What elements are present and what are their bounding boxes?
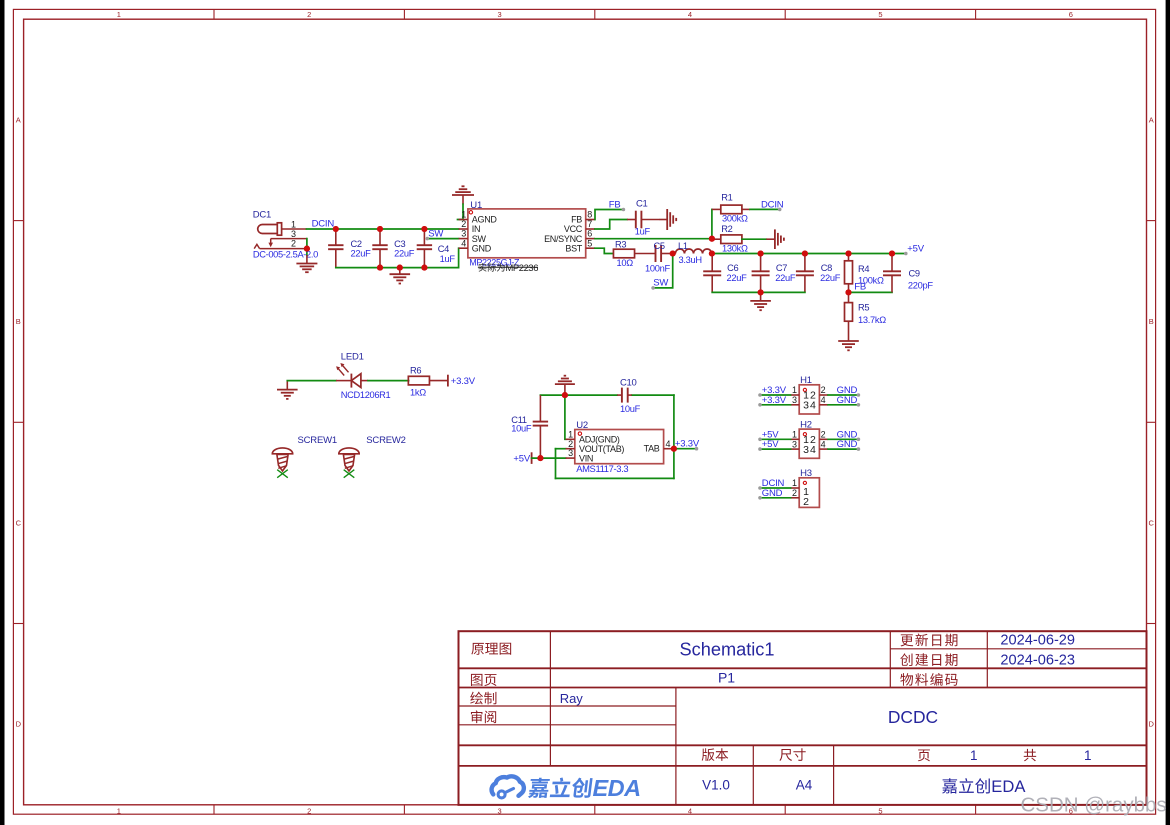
- svg-text:GND: GND: [837, 395, 858, 406]
- connector DC1 barrel jack: [254, 223, 307, 249]
- svg-text:6: 6: [1069, 10, 1073, 19]
- wire R1 to DCIN flag: [712, 208, 721, 210]
- svg-text:220pF: 220pF: [908, 280, 933, 290]
- svg-text:2024-06-29: 2024-06-29: [1000, 633, 1075, 649]
- svg-text:R1: R1: [721, 193, 732, 203]
- svg-text:EDA: EDA: [593, 775, 641, 801]
- svg-text:5: 5: [878, 10, 882, 19]
- svg-text:22uF: 22uF: [775, 273, 796, 283]
- svg-text:SW: SW: [472, 234, 487, 244]
- ground right of R2: [766, 238, 775, 240]
- svg-text:SW: SW: [428, 228, 443, 239]
- screw SCREW2: [339, 448, 359, 454]
- svg-text:A: A: [16, 116, 21, 125]
- H1 net labels: [762, 385, 858, 406]
- svg-text:TAB: TAB: [644, 444, 660, 454]
- svg-text:4: 4: [461, 238, 466, 248]
- resistor R5: [848, 292, 850, 302]
- capacitor C9: [891, 254, 893, 272]
- ground below R5: [848, 340, 850, 341]
- svg-text:4: 4: [810, 400, 816, 412]
- title label 共: [1024, 749, 1036, 761]
- title label 图页: [471, 674, 497, 686]
- junction gnd rail C4: [421, 265, 427, 271]
- ground at DC1: [306, 255, 308, 264]
- svg-text:10Ω: 10Ω: [617, 258, 634, 268]
- power flag +5V at U2: [531, 452, 533, 464]
- wire ground to LED1: [287, 380, 336, 382]
- wire DC1 pin3 to ground: [306, 239, 308, 255]
- junction C4 top: [421, 226, 427, 232]
- wire +5V rail: [712, 253, 906, 255]
- ground above U1 pin1: [462, 185, 465, 187]
- wire EN/SYNC to R1/R2 node: [595, 238, 712, 240]
- svg-text:Schematic1: Schematic1: [679, 640, 774, 660]
- svg-text:D: D: [1148, 720, 1154, 729]
- svg-text:H1: H1: [800, 375, 812, 386]
- svg-text:A: A: [1149, 116, 1154, 125]
- wire U1 pin1 to ground: [458, 204, 464, 219]
- svg-text:V1.0: V1.0: [702, 777, 730, 792]
- svg-text:Ray: Ray: [560, 691, 584, 706]
- svg-text:C4: C4: [438, 244, 449, 254]
- svg-text:5: 5: [878, 806, 882, 815]
- svg-text:C: C: [16, 519, 22, 528]
- svg-text:7: 7: [587, 219, 592, 229]
- JLCEDA logo text 嘉立创EDA: [528, 777, 593, 797]
- svg-text:2: 2: [461, 219, 466, 229]
- net flag +5V: [904, 252, 908, 256]
- svg-text:2: 2: [291, 238, 296, 248]
- H3 wires: [758, 486, 799, 499]
- header H1: [799, 385, 819, 414]
- ground at output caps: [760, 292, 762, 301]
- U2 pin stubs: [566, 439, 673, 458]
- svg-text:1uF: 1uF: [635, 226, 651, 236]
- net flag FB at U1 pin8: [595, 210, 623, 220]
- svg-text:22uF: 22uF: [820, 273, 841, 283]
- note 实际为MP2236: [479, 263, 505, 272]
- svg-text:FB: FB: [854, 281, 866, 292]
- capacitor C2: [335, 229, 337, 245]
- wire R6 to +3.3V: [429, 380, 448, 382]
- svg-text:2: 2: [792, 488, 797, 498]
- capacitor C3: [379, 229, 381, 245]
- junction dots overlay: [304, 226, 895, 461]
- svg-text:EN/SYNC: EN/SYNC: [544, 234, 583, 244]
- wire input gnd rail: [336, 248, 459, 267]
- capacitor C4: [423, 229, 425, 245]
- wire LED1 to R6: [368, 380, 409, 382]
- svg-text:C: C: [1148, 519, 1154, 528]
- capacitor C7: [760, 254, 762, 272]
- svg-text:C5: C5: [654, 241, 665, 251]
- svg-text:C10: C10: [620, 377, 637, 388]
- svg-text:GND: GND: [762, 488, 783, 499]
- svg-text:H2: H2: [800, 420, 812, 431]
- U2 pin names: [579, 435, 660, 464]
- svg-text:3: 3: [792, 439, 797, 449]
- H3 outside pin numbers: [792, 478, 797, 498]
- svg-text:4: 4: [821, 439, 826, 449]
- svg-text:2: 2: [821, 385, 826, 395]
- svg-text:300kΩ: 300kΩ: [722, 214, 748, 224]
- svg-text:3: 3: [792, 395, 797, 405]
- capacitor C8: [804, 254, 806, 272]
- svg-text:+3.3V: +3.3V: [451, 376, 476, 387]
- svg-text:130kΩ: 130kΩ: [722, 243, 748, 253]
- svg-text:VIN: VIN: [579, 453, 593, 463]
- IC U2 body: [575, 430, 664, 464]
- wire DCIN from DC1 to U1 pin2: [307, 228, 459, 230]
- junction R2 node: [709, 236, 715, 242]
- junction gnd rail C3: [377, 265, 383, 271]
- svg-text:3: 3: [803, 400, 809, 412]
- svg-text:1: 1: [792, 430, 797, 440]
- svg-text:C6: C6: [727, 263, 738, 273]
- IC U1 body: [468, 209, 586, 258]
- resistor R4: [848, 254, 850, 261]
- svg-text:10uF: 10uF: [511, 424, 532, 434]
- junction DC1 pin2/3: [304, 246, 310, 252]
- wire FB node to C9: [849, 291, 893, 293]
- junction TAB +3.3V: [671, 446, 677, 452]
- ground right of C1: [659, 219, 667, 221]
- junction rail C7: [758, 250, 764, 256]
- header H3: [799, 478, 819, 508]
- title label 更新日期: [901, 634, 958, 647]
- svg-text:3: 3: [803, 444, 809, 456]
- junction rail R4: [845, 250, 851, 256]
- svg-text:22uF: 22uF: [351, 249, 372, 259]
- svg-text:L1: L1: [678, 241, 688, 251]
- svg-text:2024-06-23: 2024-06-23: [1000, 652, 1075, 668]
- svg-text:1: 1: [1084, 748, 1092, 763]
- title label 尺寸: [779, 748, 805, 761]
- U1 pin stubs right: [586, 220, 595, 249]
- junction U2 gnd node: [562, 392, 568, 398]
- junction rail C8: [802, 250, 808, 256]
- H1 outside pin numbers: [792, 385, 826, 405]
- svg-text:U1: U1: [470, 200, 482, 211]
- svg-text:+5V: +5V: [907, 244, 924, 255]
- svg-text:+3.3V: +3.3V: [762, 395, 787, 406]
- junction rail L1: [709, 250, 715, 256]
- title label 物料编码: [900, 673, 957, 686]
- capacitor C5: [635, 253, 656, 255]
- U1 pin stubs left: [459, 220, 468, 249]
- svg-text:1: 1: [461, 210, 466, 220]
- svg-text:NCD1206R1: NCD1206R1: [341, 390, 391, 400]
- window edge left: [0, 0, 5, 825]
- wire +3.3V right vertical: [673, 395, 675, 478]
- capacitor C1: [627, 219, 636, 221]
- svg-text:LED1: LED1: [341, 352, 364, 363]
- svg-text:R2: R2: [721, 224, 732, 234]
- svg-text:1: 1: [291, 219, 296, 229]
- svg-text:4: 4: [688, 806, 692, 815]
- junction FB node: [845, 289, 851, 295]
- svg-text:AMS1117-3.3: AMS1117-3.3: [576, 463, 628, 474]
- svg-text:6: 6: [587, 229, 592, 239]
- svg-text:SCREW2: SCREW2: [366, 435, 405, 446]
- ground above U2: [564, 375, 567, 377]
- svg-text:1: 1: [792, 385, 797, 395]
- junction gnd rail ground tap: [397, 265, 403, 271]
- svg-text:1: 1: [117, 806, 121, 815]
- svg-text:CSDN @raybbs: CSDN @raybbs: [1021, 793, 1167, 816]
- resistor R6: [408, 376, 429, 385]
- title label 审阅: [471, 710, 496, 723]
- svg-text:DCDC: DCDC: [888, 707, 938, 727]
- DC1 pin numbers: [291, 219, 296, 248]
- svg-text:DC1: DC1: [253, 210, 271, 221]
- svg-text:FB: FB: [571, 215, 582, 225]
- ground left of LED1: [286, 381, 288, 390]
- capacitor C10: [617, 394, 622, 396]
- svg-text:4: 4: [821, 395, 826, 405]
- svg-text:1: 1: [970, 748, 978, 763]
- svg-text:+5V: +5V: [762, 439, 779, 450]
- svg-text:P1: P1: [718, 670, 735, 686]
- H2 wires: [758, 438, 860, 451]
- H3 net labels: [762, 478, 785, 499]
- wire R1 node vertical: [711, 209, 713, 238]
- svg-text:22uF: 22uF: [727, 273, 748, 283]
- wire U2 top gnd rail: [540, 394, 617, 396]
- svg-text:+5V: +5V: [513, 453, 530, 464]
- title label 绘制: [470, 692, 496, 705]
- resistor R1: [721, 205, 742, 214]
- header H2: [799, 429, 819, 458]
- svg-text:1kΩ: 1kΩ: [410, 387, 426, 397]
- svg-text:FB: FB: [609, 199, 621, 210]
- U1 pin numbers: [461, 210, 592, 249]
- svg-text:3: 3: [498, 10, 502, 19]
- inductor L1: [675, 249, 684, 254]
- title label 页: [918, 749, 930, 761]
- svg-text:+3.3V: +3.3V: [675, 439, 700, 450]
- junction C2 top: [333, 226, 339, 232]
- svg-text:1uF: 1uF: [440, 254, 456, 264]
- LED LED1: [336, 363, 368, 388]
- svg-text:10uF: 10uF: [620, 404, 641, 414]
- wire ADJ to gnd node: [564, 395, 567, 439]
- svg-text:5: 5: [587, 238, 592, 248]
- svg-text:2: 2: [821, 430, 826, 440]
- U2 pin numbers: [568, 429, 670, 458]
- H2 inside pin numbers: [803, 434, 816, 456]
- title label 原理图: [471, 643, 511, 655]
- H1 inside pin numbers: [803, 390, 816, 412]
- svg-text:R6: R6: [410, 365, 421, 375]
- net flag +3.3V at U2: [674, 448, 697, 450]
- svg-text:SW: SW: [653, 278, 668, 289]
- svg-text:13.7kΩ: 13.7kΩ: [858, 315, 886, 325]
- wire U1 pin7 to C1: [595, 220, 627, 230]
- junction C3 top: [377, 226, 383, 232]
- wire U1 pin5 BST to R3: [595, 248, 613, 253]
- svg-text:BST: BST: [565, 243, 582, 253]
- wire +5V to VIN: [532, 457, 566, 459]
- title label 创建日期: [900, 653, 957, 666]
- svg-text:R3: R3: [615, 239, 626, 249]
- title value 嘉立创EDA: [942, 778, 990, 793]
- svg-text:GND: GND: [837, 439, 858, 450]
- screw SCREW1: [272, 448, 292, 454]
- svg-text:C7: C7: [776, 263, 787, 273]
- svg-text:R5: R5: [858, 303, 869, 313]
- svg-text:VCC: VCC: [564, 224, 583, 234]
- svg-text:B: B: [16, 317, 21, 326]
- svg-text:1: 1: [117, 10, 121, 19]
- svg-text:3: 3: [498, 806, 502, 815]
- svg-text:22uF: 22uF: [394, 249, 415, 259]
- svg-text:2: 2: [803, 496, 809, 508]
- svg-text:8: 8: [587, 210, 592, 220]
- svg-text:DCIN: DCIN: [761, 199, 784, 210]
- svg-text:3.3uH: 3.3uH: [679, 255, 702, 265]
- U1 pin1 origin marker: [469, 211, 472, 214]
- svg-text:4: 4: [688, 10, 692, 19]
- svg-text:100nF: 100nF: [645, 263, 670, 273]
- net flag SW below L1: [653, 254, 673, 288]
- svg-text:2: 2: [307, 10, 311, 19]
- H2 net labels: [762, 429, 858, 450]
- resistor R2: [721, 235, 742, 244]
- svg-text:GND: GND: [472, 243, 492, 253]
- ground at input rail: [399, 268, 401, 275]
- svg-text:4: 4: [666, 439, 671, 449]
- wire output cap gnd rail: [712, 291, 805, 293]
- title label 版本: [702, 748, 729, 761]
- svg-text:AGND: AGND: [472, 215, 498, 225]
- title block grid: [459, 631, 1147, 805]
- net flag SW at U1: [427, 238, 458, 240]
- junction rail C9: [889, 250, 895, 256]
- svg-text:H3: H3: [800, 468, 812, 479]
- junction C5/L1/SW: [670, 250, 676, 256]
- svg-text:IN: IN: [472, 224, 480, 234]
- U1 pin names: [472, 215, 583, 254]
- H2 outside pin numbers: [792, 430, 826, 450]
- svg-text:A4: A4: [796, 777, 813, 792]
- U2 pin1 origin marker: [578, 432, 581, 435]
- JLCEDA logo cloud icon: [492, 776, 524, 798]
- svg-text:C9: C9: [909, 268, 920, 278]
- resistor R3: [613, 249, 634, 258]
- wire +3.3V bottom rail: [556, 477, 674, 479]
- svg-text:B: B: [1149, 317, 1154, 326]
- svg-text:D: D: [16, 720, 22, 729]
- svg-text:SCREW1: SCREW1: [298, 435, 337, 446]
- svg-text:3: 3: [461, 229, 466, 239]
- svg-text:R4: R4: [858, 264, 869, 274]
- svg-text:3: 3: [291, 229, 296, 239]
- wire VOUT to bottom rail: [555, 449, 557, 479]
- svg-text:C3: C3: [394, 239, 405, 249]
- junction cap gnd rail: [758, 289, 764, 295]
- H3 inside pin numbers: [803, 486, 809, 508]
- power flag +3.3V at R6: [447, 375, 449, 387]
- H1 wires: [758, 393, 860, 406]
- wire R2 to ground: [742, 238, 766, 240]
- svg-text:C2: C2: [351, 239, 362, 249]
- svg-text:C8: C8: [821, 263, 832, 273]
- svg-text:2: 2: [307, 806, 311, 815]
- capacitor C11: [539, 395, 541, 422]
- svg-text:C1: C1: [636, 198, 648, 209]
- net flag DCIN right: [778, 208, 782, 212]
- capacitor C6: [711, 254, 713, 272]
- svg-text:1: 1: [792, 478, 797, 488]
- svg-text:DCIN: DCIN: [312, 218, 335, 229]
- junction +5V C11: [537, 455, 543, 461]
- svg-text:4: 4: [810, 444, 816, 456]
- svg-text:U2: U2: [576, 420, 588, 431]
- window edge right: [1166, 0, 1170, 825]
- svg-text:3: 3: [568, 448, 573, 458]
